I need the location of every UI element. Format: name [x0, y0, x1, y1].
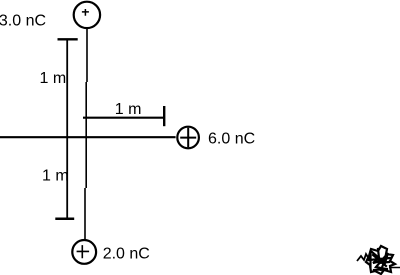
charge Q3 (bottom, 2.0 nC) circle — [72, 240, 96, 264]
charge Q3 plus sign — [77, 245, 90, 258]
dimension tick bottom — [55, 218, 74, 221]
svg-text:1 m: 1 m — [40, 70, 67, 87]
svg-text:1 m: 1 m — [115, 101, 142, 118]
dimension tick right end — [163, 106, 165, 126]
wire vertical (Q1 to Q3, with slight jogs) — [85, 28, 87, 239]
svg-text:1 m: 1 m — [42, 168, 69, 185]
scribble left tail — [357, 254, 371, 261]
svg-text:2.0 nC: 2.0 nC — [103, 245, 150, 262]
decorative scribble mark bottom-right — [366, 246, 395, 274]
svg-text:3.0 nC: 3.0 nC — [0, 12, 46, 29]
charge Q2 plus sign — [180, 128, 196, 148]
charge Q1 plus sign — [82, 9, 89, 16]
dimension line left vertical — [66, 39, 68, 219]
charge Q2 (right, 6.0 nC) circle — [177, 127, 199, 149]
wire horizontal (x-axis to Q2) — [0, 136, 176, 138]
charge Q1 (top, 3.0 nC) circle — [74, 2, 100, 28]
svg-text:6.0 nC: 6.0 nC — [208, 130, 255, 147]
dimension tick top — [58, 38, 78, 40]
scribble right line to edge — [389, 267, 400, 269]
dimension line horizontal — [83, 117, 164, 119]
